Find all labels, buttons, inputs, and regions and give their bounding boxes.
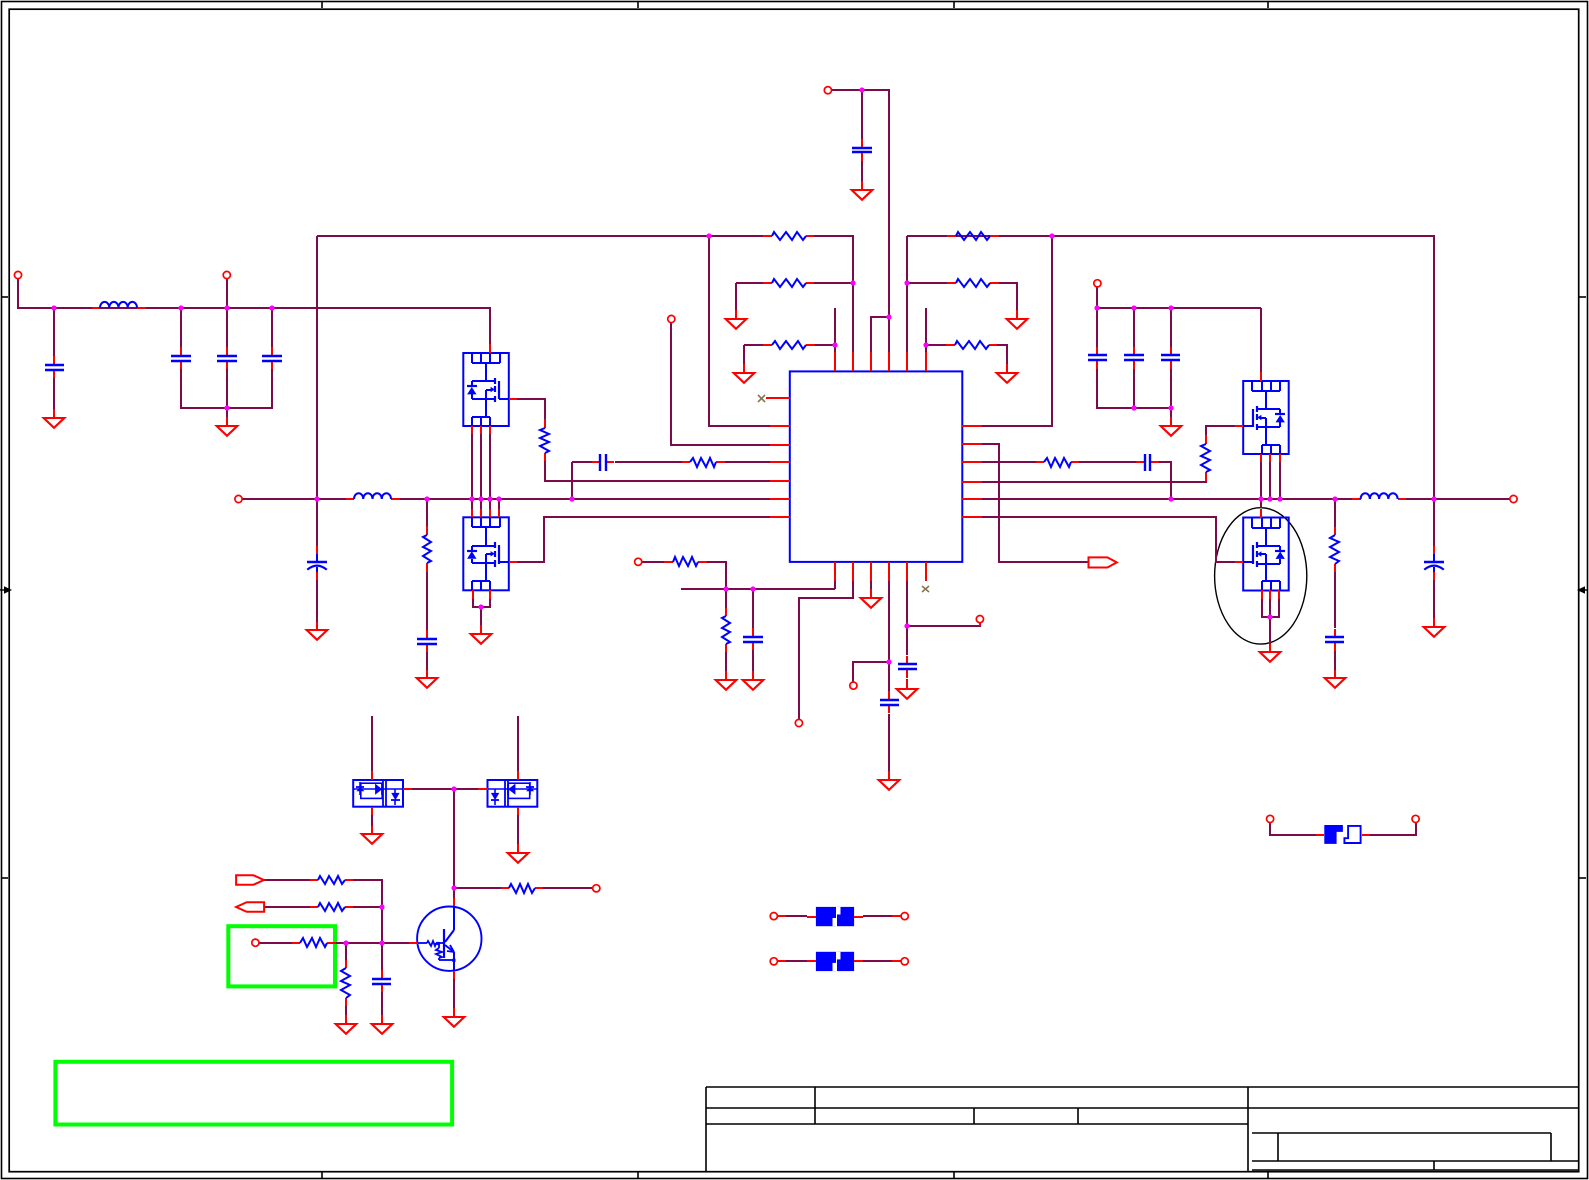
wire R1 to pin riser (814, 236, 853, 352)
wire C15 to gnd (752, 650, 754, 671)
wire R2 gnd branch (735, 283, 737, 310)
wire R5 to gnd (999, 283, 1017, 310)
wire R16 to gnd (345, 1006, 347, 1015)
resistor R4 (top bus right) (947, 232, 999, 240)
wire R15 row (454, 887, 501, 889)
fuse F2 (807, 952, 863, 971)
junction at 345.8,942.7 (343, 940, 348, 945)
wire J9 to RC (259, 942, 292, 944)
wire C11 branch (1133, 308, 1135, 347)
diode array D1 (353, 780, 403, 807)
ground (Q4 source) (1260, 644, 1281, 662)
ground (C16) (879, 771, 900, 790)
wire pin 835 riser (834, 308, 836, 352)
ground (C10 rail) (1161, 417, 1182, 436)
wire C6 to SW bus (571, 462, 573, 499)
resistor R11 (Q3 gate) (1201, 435, 1210, 481)
ground (D1) (362, 826, 383, 844)
wire IC row4 right to R11 (982, 481, 1206, 482)
wire VIN rail from J1 to Q1 drain (18, 279, 490, 345)
resistor R16 (base pulldown) (341, 960, 350, 1006)
wire IC row3 right lead (982, 461, 1036, 463)
dual MOSFET Q3 (high-side right) (1243, 381, 1289, 454)
capacitor C17 (898, 656, 917, 678)
wire C2-C4 bottom rail to GND (181, 369, 272, 408)
wire R16 branch (345, 943, 347, 960)
junction at 889.4,316.6 (886, 314, 891, 319)
terminal J4 (1094, 280, 1101, 287)
wire C3 bottom (226, 369, 228, 417)
wire IC row2 right to offpage (982, 444, 1088, 562)
wire Q3 S wire c (1279, 462, 1281, 499)
wire Q3 S wire a (1260, 462, 1262, 499)
wire SW bus right 2 (1406, 498, 1510, 500)
wire Q4 source to gnd (1269, 617, 1271, 644)
wire R3 gnd branch (743, 345, 745, 364)
resistor R8 (Q1 gate) (540, 419, 549, 461)
wire C10-12 bottom rail (1097, 369, 1171, 408)
ground (C15) (743, 671, 764, 690)
wire Q4 source join (1262, 598, 1279, 617)
terminal J8 (593, 885, 600, 892)
junction at 472.4,499 (469, 496, 474, 501)
terminal F2 right (901, 958, 908, 965)
wire C14 branch (1433, 499, 1435, 546)
wire VREG top terminal (832, 90, 889, 352)
wire C6 left lead (572, 461, 592, 463)
wire Q2 D wire d (498, 499, 500, 509)
no-connect X (IC left pin) (758, 395, 765, 402)
terminal SW left (235, 495, 242, 502)
wire RA to corner (353, 880, 382, 943)
wire C1 to GND (53, 378, 55, 409)
wire VIN rail right (1097, 307, 1261, 309)
wire R6 to gnd (997, 345, 1007, 364)
wire JP1 right (1370, 823, 1416, 835)
dual MOSFET Q1 (high-side left) (463, 353, 509, 426)
terminal trr (635, 558, 642, 565)
resistor R10 (comp right) (1036, 458, 1079, 467)
ground (C8) (417, 670, 438, 688)
junction at 853.4,283 (850, 280, 855, 285)
junction at 907.4,283 (904, 280, 909, 285)
wire Q4 source mid (1269, 598, 1271, 617)
wire VCC top bus left (317, 235, 763, 237)
wire C2 branch (180, 308, 182, 347)
capacitor C18 (372, 970, 391, 992)
terminal F1 right (901, 913, 908, 920)
offpage connector (to gate driver H) (1089, 557, 1117, 567)
ground (C3 rail) (217, 417, 238, 436)
wire C7 to gnd (316, 580, 318, 622)
wire R6 row right (926, 344, 946, 346)
wire Q1 gate row (517, 399, 545, 419)
junction at 1270.4,499 (1267, 496, 1272, 501)
ground (C7) (307, 622, 328, 640)
wire IC row6 right to Q4 gate (982, 517, 1235, 562)
wire R14 branch (725, 589, 727, 608)
wire Q4 drain from bus (1260, 499, 1262, 508)
junction at 226.8,407.8 (224, 405, 229, 410)
wire Q3 S wire b (1269, 462, 1271, 499)
wire D1-D2 link (412, 788, 478, 790)
resistor R15 (collector) (501, 884, 543, 893)
ground (D2) (508, 844, 529, 863)
junction at 709,236 (706, 233, 711, 238)
junction at 427,499 (424, 496, 429, 501)
terminal J5 (795, 719, 802, 726)
wire C5 branch (861, 90, 863, 139)
wire R3 row left (744, 344, 763, 346)
wire C10 branch (1096, 308, 1098, 347)
wire C18 branch (381, 943, 383, 970)
wire D1 gnd (371, 815, 373, 826)
resistor RA (offpage A) (310, 876, 353, 884)
terminal JP1 right (1412, 815, 1419, 822)
dual MOSFET Q4 (low-side right, circled) (1243, 518, 1289, 591)
capacitor C16 (880, 691, 899, 713)
junction at 907.4,625.6 (904, 623, 909, 628)
component pin red stubs (372, 344, 1280, 815)
resistor R9 (SW left) (423, 526, 431, 572)
wire trr input row (642, 561, 664, 563)
junction at 381.5,907 (379, 904, 384, 909)
capacitor C1 (45, 356, 64, 378)
wire R12 branch (1334, 499, 1336, 527)
wire C18 to gnd (381, 992, 383, 1015)
inductor L1 (input filter) (92, 302, 146, 308)
wire C17 to gnd (906, 679, 908, 680)
wire junction 1052 to IC pin (982, 236, 1052, 426)
wire R15 to J8 (543, 887, 592, 889)
terminal JP1 left (1267, 815, 1274, 822)
ground (C1) (44, 409, 65, 428)
green annotation box (option circuit) (228, 926, 335, 986)
capacitor C2 (171, 347, 191, 369)
junction at 889.4,661.9 (886, 659, 891, 664)
ground (R14) (716, 671, 737, 690)
ground (C13) (1325, 670, 1346, 688)
junction at 1171,499 (1168, 496, 1173, 501)
capacitor C9 (comp right) (1136, 454, 1159, 471)
wire VCC vertical crossover (316, 236, 318, 499)
wire C14 to gnd (1433, 580, 1435, 618)
terminal F1 left (770, 913, 777, 920)
wire D2 feed (517, 716, 519, 771)
wire R12 to C13 (1334, 572, 1336, 628)
wire R13 to rail (707, 562, 726, 589)
wire R4 lead (907, 235, 947, 237)
wire Q1 S wire c (489, 434, 491, 499)
terminal J1 (VIN) (14, 271, 21, 278)
junction at 1134,407.8 (1131, 405, 1136, 410)
terminal J6 (850, 682, 857, 689)
wire C5 to gnd (861, 161, 863, 181)
wire R10 to C9 (1079, 461, 1136, 463)
ground (C17) (897, 680, 918, 699)
wire collector net vertical (453, 789, 455, 898)
wire Q2 source to gnd (480, 607, 482, 625)
wire IC pin 835 drop (834, 581, 836, 589)
junction at 862,90.2 (859, 87, 864, 92)
junction at 272.2,307.7 (269, 305, 274, 310)
junction at 381.5,942.7 (379, 940, 384, 945)
wire SW bus mid (400, 498, 770, 500)
ground (R16) (336, 1015, 357, 1034)
wire F1 left (777, 915, 807, 917)
capacitor C14 (SW right bulk) (1424, 546, 1444, 580)
capacitor C8 (417, 630, 437, 652)
ground (C18) (372, 1015, 393, 1034)
wire R8 to IC pin row4 (545, 461, 770, 481)
wire IC pin 853 to J5 (799, 581, 853, 719)
ground (R5 row) (1007, 310, 1028, 329)
junction at 1334.7,499 (1332, 496, 1337, 501)
resistor R6 (946, 341, 997, 349)
junction at 481.4,499 (478, 496, 483, 501)
junction at 1170.6,407.8 (1168, 405, 1173, 410)
wire D1 feed (371, 716, 373, 771)
wire C16 to gnd (888, 714, 890, 771)
junction at 925.5,345 (923, 342, 928, 347)
resistor R2 (763, 279, 814, 287)
wire R11 to Q3 gate (1206, 426, 1235, 435)
junction at 490.4,499 (487, 496, 492, 501)
wire R4 to junction 1052 (998, 235, 1052, 237)
capacitor C3 (217, 347, 237, 369)
resistor RC (in green box) (292, 938, 336, 947)
resistor R14 (722, 608, 730, 652)
wire IC pin 907 net (906, 581, 908, 655)
ground (R2 row) (726, 310, 747, 329)
terminal F2 left (770, 958, 777, 965)
capacitor C6 (comp left) (592, 454, 614, 471)
wire R3 to junction (815, 344, 835, 346)
wire bus to IC pin row1 left (709, 236, 770, 426)
junction at 1261.3,499 (1258, 496, 1263, 501)
capacitor C5 (vreg) (852, 139, 872, 161)
wire Q2 D wire c (489, 499, 491, 509)
wire Q2 gate row (517, 517, 770, 562)
junction at 1170.6,307.7 (1168, 305, 1173, 310)
capacitor C11 (1124, 347, 1144, 369)
wire R2 row left (736, 282, 763, 284)
fuse F1 (807, 907, 863, 926)
ground (Q2 source) (471, 625, 492, 644)
junction at 571.5,499 (569, 496, 574, 501)
wire C6 to R7 (615, 461, 682, 463)
resistor RB (offpage B) (310, 903, 353, 911)
terminal SW right (1510, 495, 1517, 502)
wire J2 to VIN rail (226, 279, 228, 308)
wire offpage B row (264, 906, 310, 908)
wire pin 925 riser (925, 308, 927, 352)
wire C11 bottom (1133, 369, 1135, 408)
wire R5 row right (907, 282, 947, 284)
junction at 1052,236 (1049, 233, 1054, 238)
wire SW bus left (242, 498, 346, 500)
terminal red stubs (778, 623, 980, 961)
junction at 753.1,589.2 (750, 586, 755, 591)
ground (pin 871) (861, 589, 882, 608)
junction at 1279.5,499 (1277, 496, 1282, 501)
junction at 180.8,307.7 (178, 305, 183, 310)
junction at 499.4,499 (496, 496, 501, 501)
wire IC pin 889 net (888, 581, 890, 691)
wire JP1 left (1270, 823, 1316, 835)
junction at 226.8,307.7 (224, 305, 229, 310)
terminal J3 (668, 315, 675, 322)
wire RB to junction (353, 906, 382, 908)
junction at 835.4,345 (832, 342, 837, 347)
offpage connector A (236, 875, 264, 885)
wire C13 to gnd (1334, 651, 1336, 670)
junction at 54.5,307.7 (51, 305, 56, 310)
resistor R13 (trr) (664, 557, 707, 566)
wire J3 to IC pin row2 left (671, 323, 770, 445)
no-connect X (IC bottom pin) (922, 586, 929, 592)
wire PGND rail bottom (681, 588, 835, 590)
inductor L3 (SW right) (1352, 493, 1406, 499)
junction at 1097.4,307.7 (1094, 305, 1099, 310)
wire Q3 drain feed (1260, 308, 1262, 372)
wire R7 to IC (725, 461, 770, 463)
ground (R3 row) (734, 364, 755, 383)
wire R9 branch (426, 499, 428, 526)
wire C3 branch (226, 308, 228, 347)
capacitor C4 (262, 347, 282, 369)
terminal J2 (223, 271, 230, 278)
wire R14 to gnd (725, 652, 727, 671)
wire J4 to rail (1096, 287, 1098, 308)
wire rail gnd branch (1170, 408, 1172, 417)
wire top bus right (907, 236, 1434, 499)
wire base row (336, 942, 409, 944)
junction at 1270.4,617.3 (1267, 614, 1272, 619)
junction at 317,499 (314, 496, 319, 501)
ground (R6 row) (997, 364, 1018, 383)
dual MOSFET Q2 (low-side left) (463, 517, 509, 590)
wire branch to J6 (853, 662, 889, 682)
wire to J7 (907, 623, 980, 626)
wire F2 left (777, 960, 807, 962)
wire Q2 source join (473, 598, 490, 607)
wire C1 branch (53, 308, 55, 356)
resistor R7 (comp) (682, 458, 725, 467)
wire C4 branch (271, 308, 273, 347)
terminal J7 (976, 616, 983, 623)
capacitor C10 (1088, 347, 1107, 369)
junction at 1134,307.7 (1131, 305, 1136, 310)
ground (C14) (1424, 618, 1445, 637)
wire pin 871 to gnd (870, 581, 872, 589)
controller IC U1 (766, 352, 982, 581)
green annotation box (notes area) (55, 1062, 452, 1125)
wire pin 871 link (871, 317, 889, 352)
title block (706, 1087, 1579, 1172)
resistor R5 (947, 279, 999, 287)
wire C15 branch (752, 589, 754, 628)
ground (Q5 emitter) (444, 1008, 465, 1027)
wire emitter to gnd (453, 979, 455, 1008)
junction at 453.9,789.2 (451, 786, 456, 791)
wire R2 to junction (814, 282, 853, 284)
junction at 481.2,607.3 (478, 604, 483, 609)
wire offpage A row (263, 879, 310, 881)
wire C9 to SW bus right (1159, 462, 1171, 499)
wire SW bus right (982, 498, 1352, 500)
resistor R12 (SW right) (1330, 527, 1339, 572)
diode array D2 (488, 780, 538, 807)
junction at 1434,499 (1431, 496, 1436, 501)
wire F1 right (863, 915, 901, 917)
wire C12 branch (1170, 308, 1172, 347)
resistor R1 (top bus left) (763, 232, 814, 240)
wire C8 to gnd (426, 652, 428, 670)
wire Q1 S wire a (471, 434, 473, 499)
highlight ellipse around low-side MOSFET Q4 (1215, 508, 1307, 644)
junction at 453.9,888.3 (451, 885, 456, 890)
wire R9 to C8 (426, 572, 428, 632)
wire pin 907 riser (906, 236, 908, 352)
transistor Q5 (digital NPN) (409, 898, 481, 979)
wire D2 gnd (517, 815, 519, 844)
jumper JP1 (1316, 825, 1370, 844)
capacitor C15 (743, 628, 763, 650)
inductor L2 (SW left) (346, 493, 400, 499)
capacitor C7 (SW left bulk) (307, 546, 327, 580)
wire Q2 D wire a (471, 499, 473, 509)
wire Q2 D wire b (480, 499, 482, 509)
terminal VREG top (824, 87, 831, 94)
capacitor C13 (1325, 629, 1344, 651)
capacitor C12 (1161, 347, 1180, 369)
terminal J9 (green box) (252, 939, 259, 946)
wire C7 branch (316, 499, 318, 546)
offpage connector B (236, 902, 264, 912)
ground (C5) (852, 181, 873, 200)
wire F2 right (863, 960, 901, 962)
junction at 726.1,589.2 (723, 586, 728, 591)
resistor R3 (763, 341, 815, 349)
wire Q1 S wire b (480, 434, 482, 499)
